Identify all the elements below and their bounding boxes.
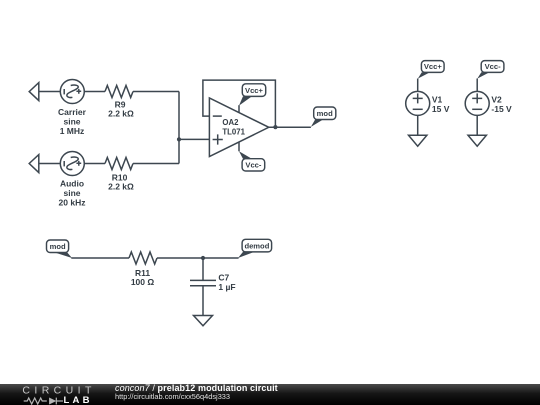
svg-text:mod: mod bbox=[50, 242, 66, 251]
svg-text:sine: sine bbox=[63, 188, 80, 198]
svg-text:2.2 kΩ: 2.2 kΩ bbox=[108, 109, 134, 119]
svg-text:sine: sine bbox=[63, 116, 80, 126]
svg-text:Vcc-: Vcc- bbox=[485, 62, 502, 71]
svg-text:C7: C7 bbox=[218, 273, 229, 283]
svg-text:OA2: OA2 bbox=[222, 118, 239, 127]
svg-text:Vcc+: Vcc+ bbox=[424, 62, 443, 71]
svg-text:Vcc-: Vcc- bbox=[245, 161, 262, 170]
svg-text:1 MHz: 1 MHz bbox=[60, 126, 85, 136]
svg-text:Vcc+: Vcc+ bbox=[245, 86, 264, 95]
svg-text:1 µF: 1 µF bbox=[218, 282, 235, 292]
svg-text:LAB: LAB bbox=[64, 395, 93, 405]
svg-text:mod: mod bbox=[317, 109, 333, 118]
svg-text:TL071: TL071 bbox=[222, 128, 245, 137]
svg-text:100 Ω: 100 Ω bbox=[131, 277, 155, 287]
svg-text:demod: demod bbox=[244, 241, 269, 250]
svg-text:15 V: 15 V bbox=[432, 104, 450, 114]
svg-text:http://circuitlab.com/cxx56q4d: http://circuitlab.com/cxx56q4dsj333 bbox=[115, 392, 230, 401]
svg-text:2.2 kΩ: 2.2 kΩ bbox=[108, 182, 134, 192]
svg-text:-15 V: -15 V bbox=[491, 104, 512, 114]
svg-text:20 kHz: 20 kHz bbox=[59, 198, 86, 208]
